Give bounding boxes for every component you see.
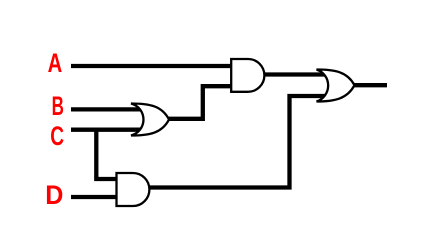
- svg-text:A: A: [48, 48, 63, 79]
- svg-text:D: D: [45, 179, 63, 210]
- svg-text:B: B: [52, 91, 64, 121]
- svg-text:C: C: [50, 121, 64, 151]
